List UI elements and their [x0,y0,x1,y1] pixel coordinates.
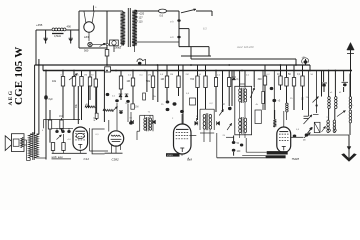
svg-text:a-b: a-b [170,35,174,39]
svg-text:XXXX: XXXX [167,155,173,157]
svg-text:+4μ: +4μ [138,58,143,61]
svg-text:1M: 1M [127,80,130,83]
svg-text:6,3: 6,3 [203,27,207,31]
svg-text:1M: 1M [161,78,164,81]
svg-text:2M: 2M [148,75,151,77]
svg-text:490: 490 [67,25,72,29]
svg-text:7M28: 7M28 [292,157,300,161]
svg-text:AEG: AEG [8,90,14,106]
svg-text:+455: +455 [36,23,43,27]
svg-text:1M: 1M [84,75,87,77]
svg-text:110: 110 [139,21,144,24]
svg-text:C12: C12 [84,157,90,161]
svg-text:2M: 2M [186,74,189,76]
svg-text:C382: C382 [112,157,120,161]
svg-text:1M: 1M [170,74,173,76]
svg-text:0,6: 0,6 [160,15,164,18]
svg-text:CGE 105 W: CGE 105 W [13,47,25,105]
svg-text:1M: 1M [135,106,138,109]
svg-text:1M: 1M [59,115,62,118]
svg-text:700: 700 [190,78,195,81]
svg-text:100kΩ: 100kΩ [114,46,122,50]
svg-text:Ausf. 110-220: Ausf. 110-220 [236,45,254,49]
svg-text:a-b: a-b [170,20,174,24]
svg-text:+220: +220 [139,13,145,16]
svg-text:4,5kΩ: 4,5kΩ [54,34,61,38]
svg-text:8μF: 8μF [49,98,54,101]
svg-text:560: 560 [84,49,89,53]
svg-text:1Z4: 1Z4 [84,35,89,39]
svg-text:127: 127 [139,17,144,20]
svg-text:300: 300 [258,78,263,81]
